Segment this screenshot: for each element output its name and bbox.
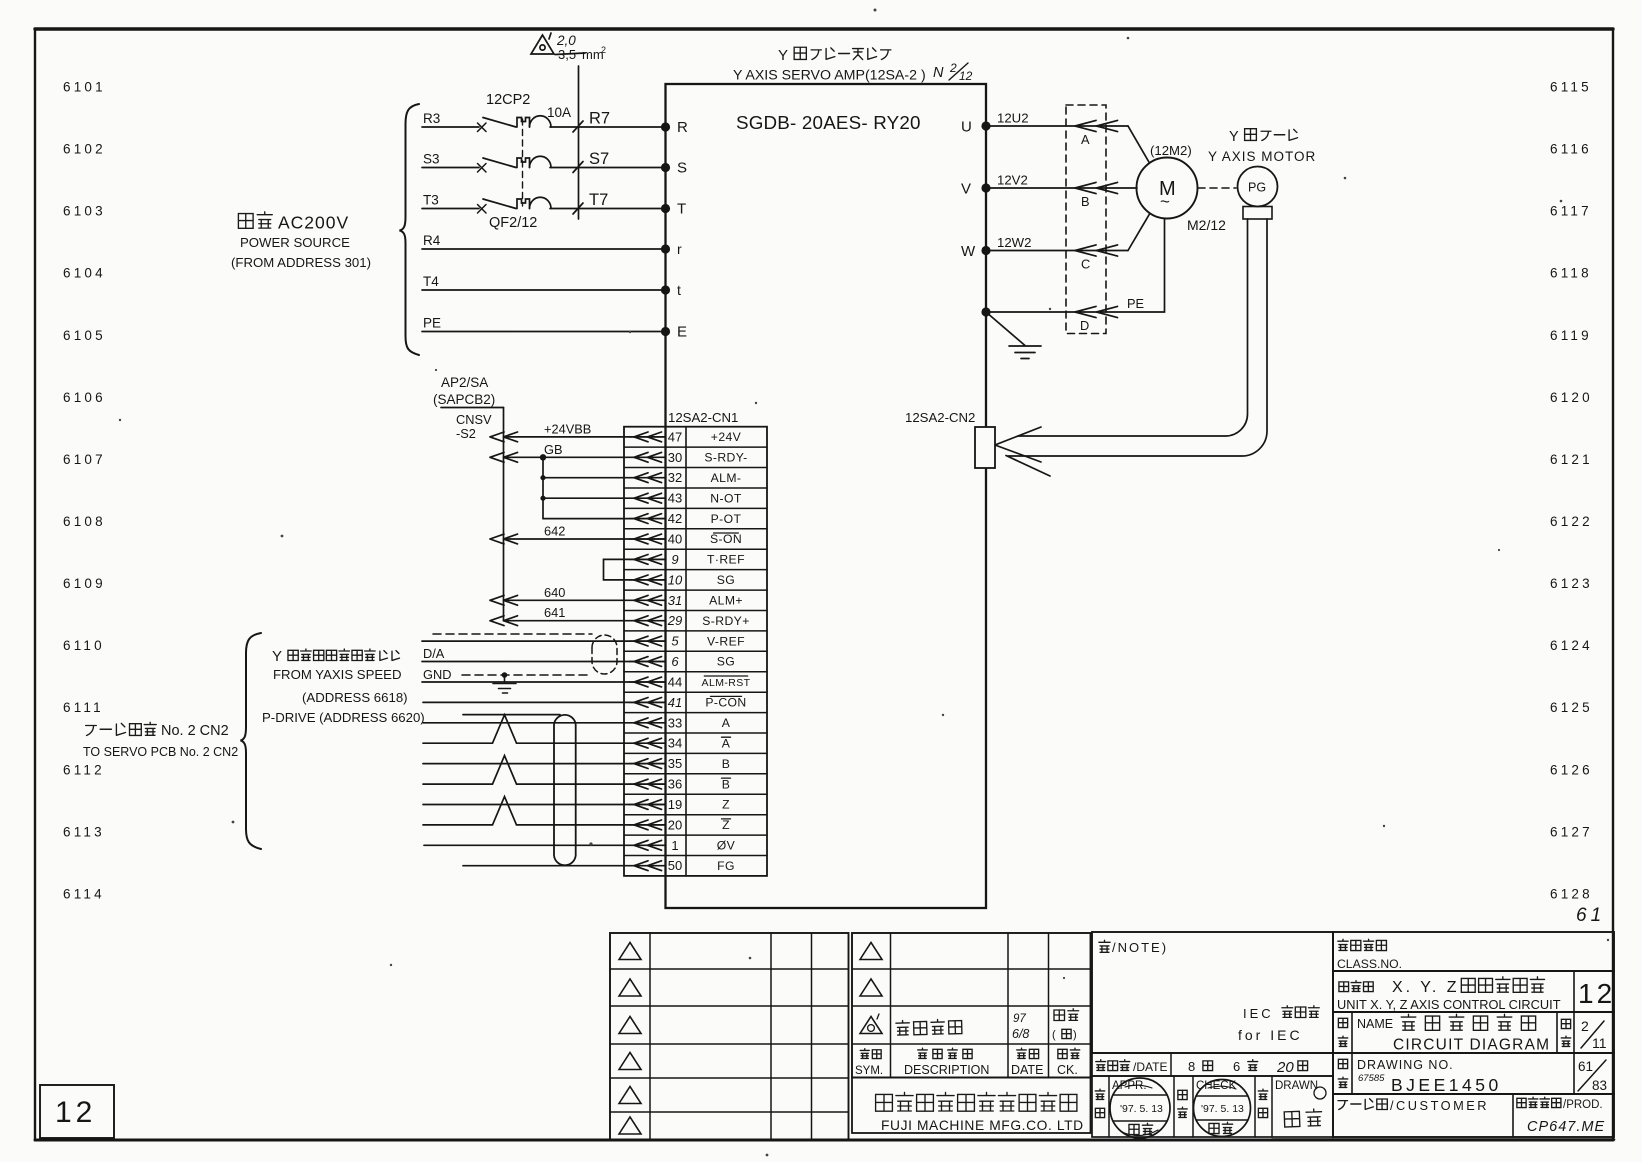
wire D/A to pin 6 [422,661,665,663]
breaker thermal element T3 [517,199,530,209]
node terminal t [661,285,670,294]
label approval (vertical Japanese) [1095,1089,1104,1117]
svg-text:DATE: DATE [1011,1063,1043,1077]
wire R4 [422,248,666,250]
svg-text:12: 12 [1578,978,1615,1009]
svg-text:44: 44 [668,675,682,690]
wire S3 input [422,167,479,169]
sheet number box 12 [40,1085,114,1138]
arrow terminal C [1075,245,1118,256]
svg-text:S-RDY+: S-RDY+ [702,614,749,628]
cable bundle oval [554,715,576,865]
svg-text:20: 20 [668,817,682,832]
svg-text:41: 41 [668,695,682,710]
svg-text:NAME: NAME [1357,1017,1393,1031]
svg-text:P-OT: P-OT [711,512,742,526]
wire arrow into pin 42 [634,514,662,524]
svg-text:8: 8 [1188,1059,1195,1074]
wire CNSV-S2 bus [503,408,505,621]
svg-text:12: 12 [55,1096,96,1129]
svg-text:6114: 6114 [63,886,105,901]
breaker contact x mark R3 [478,123,487,132]
svg-text:6120: 6120 [1550,390,1593,405]
svg-text:A: A [1081,132,1090,147]
svg-text:36: 36 [668,777,682,792]
tick on S7 wire [573,162,583,173]
wire-gauge note 2,0 / 3,5 mm2 [556,33,606,62]
wire encoder 33 [423,722,665,724]
revision triangle mark R2 [860,979,882,996]
connector CN1 pin table frame [624,427,767,876]
wire net 642 to pin 40 [504,538,666,540]
svg-text:43: 43 [668,491,682,506]
wire net 640 to pin 31 [504,599,666,601]
svg-text:19: 19 [668,797,682,812]
svg-text:6101: 6101 [63,80,106,95]
svg-text:No. 2 CN2: No. 2 CN2 [161,723,229,739]
svg-text:PE: PE [423,316,441,331]
wire encoder 36 with crossover tent [423,756,665,785]
svg-text:Y: Y [1229,129,1239,145]
wire arrow into pin 43 [634,493,662,503]
svg-text:R3: R3 [423,111,440,126]
wire R7 to amp [550,126,666,128]
svg-text:2,0: 2,0 [556,33,576,48]
wire T7 to amp [550,208,666,210]
svg-text:FG: FG [717,859,735,873]
svg-text:6108: 6108 [63,514,106,529]
wire arrow into pin 31 [634,595,662,605]
drawing no row [1333,1053,1614,1094]
svg-text:P-DRIVE (ADDRESS 6620): P-DRIVE (ADDRESS 6620) [262,710,425,725]
svg-text:V-REF: V-REF [707,634,745,648]
svg-text:~: ~ [1160,192,1170,211]
svg-text:6122: 6122 [1550,514,1593,529]
svg-text:6118: 6118 [1550,266,1592,281]
svg-text:TO SERVO PCB No. 2 CN2: TO SERVO PCB No. 2 CN2 [83,745,238,759]
svg-text:FROM YAXIS SPEED: FROM YAXIS SPEED [273,667,402,682]
svg-text:ØV: ØV [717,839,736,853]
svg-text:UNIT X. Y, Z AXIS CONTROL CIRC: UNIT X. Y, Z AXIS CONTROL CIRCUIT [1337,997,1561,1012]
svg-text:-S2: -S2 [456,426,476,441]
svg-text:B: B [722,757,731,771]
encoder PG [1238,167,1278,207]
page fraction 2/11 [1581,1018,1607,1051]
svg-text:640: 640 [544,585,565,600]
wire arrow into pin 36 [634,779,662,789]
svg-text:'97. 5. 13: '97. 5. 13 [1201,1103,1244,1115]
wire 0V to pin 1 [424,844,665,846]
svg-text:67585: 67585 [1358,1073,1385,1084]
label servo PCB No.2 CN2 (Japanese) [86,722,157,735]
wire arrow into pin 1 [634,840,662,850]
svg-text:for IEC: for IEC [1238,1027,1303,1043]
svg-text:9: 9 [671,552,678,567]
svg-text:(ADDRESS 6618): (ADDRESS 6618) [302,690,408,705]
svg-text:+24V: +24V [711,430,742,444]
svg-text:1: 1 [671,838,678,853]
svg-text:AC200V: AC200V [278,213,349,233]
svg-text:N: N [933,65,944,81]
arrow terminal B [1075,182,1118,193]
wire R3 input [422,126,479,128]
ground symbol at PE terminal [986,312,1041,359]
svg-text:ALM-: ALM- [711,471,742,485]
svg-text:33: 33 [668,715,682,730]
wire PE [422,331,666,333]
svg-text:40: 40 [668,532,682,547]
svg-text:12SA2-CN2: 12SA2-CN2 [905,410,975,425]
wire arrow into pin 20 [634,820,662,830]
svg-text:CP647.ME: CP647.ME [1527,1119,1605,1135]
name row: circuit diagram [1333,1012,1614,1053]
svg-text:6116: 6116 [1550,142,1592,157]
wire U diagonal to motor [1128,126,1150,163]
svg-text:E: E [677,324,687,341]
date row [1092,1053,1333,1076]
unit title row [1333,971,1614,1012]
svg-text:DRAWING NO.: DRAWING NO. [1357,1058,1454,1072]
svg-text:6104: 6104 [63,266,106,281]
svg-text:6: 6 [1233,1059,1240,1074]
svg-text:T·REF: T·REF [707,553,745,567]
revision date 97 6/8 [1012,1013,1029,1041]
svg-text:M2/12: M2/12 [1187,217,1226,233]
svg-text:31: 31 [668,593,682,608]
label check-label (vertical Japanese) [1178,1090,1187,1117]
svg-text:V: V [961,181,971,198]
revision triangle mark L4 [619,1053,641,1070]
svg-text:5: 5 [671,634,679,649]
svg-text:(: ( [1052,1029,1056,1041]
svg-text:B: B [722,777,731,791]
node terminal U [981,121,990,130]
svg-text:6103: 6103 [63,204,106,219]
svg-text:Z: Z [722,818,730,832]
wire T3 input [422,208,479,210]
svg-text:6123: 6123 [1550,576,1593,591]
svg-text:'97. 5. 13: '97. 5. 13 [1120,1103,1163,1115]
svg-text:12W2: 12W2 [997,235,1031,250]
svg-text:6119: 6119 [1550,328,1592,343]
svg-text:6106: 6106 [63,390,106,405]
svg-text:6121: 6121 [1550,452,1593,467]
svg-text:12SA2-CN1: 12SA2-CN1 [668,410,738,425]
node terminal r [661,244,670,253]
breaker contact x mark S3 [478,164,487,173]
svg-text:29: 29 [667,613,682,628]
svg-text:Y: Y [778,47,788,64]
wire net GB to pin 30 [504,456,666,458]
svg-text:11: 11 [1592,1035,1607,1051]
svg-text:(FROM ADDRESS 301): (FROM ADDRESS 301) [231,255,371,270]
svg-text:IEC: IEC [1243,1006,1274,1021]
wire encoder 19 [423,804,665,806]
svg-text:32: 32 [668,470,682,485]
breaker thermal element R3 [517,118,530,128]
svg-text:61: 61 [1576,905,1605,926]
sheet fraction 61/83 [1578,1059,1607,1093]
svg-text:t: t [677,282,681,298]
svg-text:D: D [1080,318,1089,333]
svg-text:GB: GB [544,442,563,457]
svg-text:QF2/12: QF2/12 [489,215,537,231]
svg-text:6112: 6112 [63,762,105,777]
wire 12U2 phase [986,125,1128,127]
svg-text:P-CON: P-CON [705,696,746,710]
arrow cable into CN2 [995,427,1041,462]
wire arrow into pin 30 [634,452,662,462]
junction dots GB branch [540,454,546,460]
op-amp/servo-amplifier U 12SA-2 box [666,84,987,908]
wire S7 to amp [550,167,666,169]
svg-text:12V2: 12V2 [997,173,1028,188]
customer row [1333,1094,1614,1137]
revision triangle mark L2 [619,979,641,996]
svg-text:Y: Y [272,648,282,665]
wire PE to motor [986,219,1165,313]
breaker blade S3 [483,158,516,168]
svg-text:6127: 6127 [1550,824,1593,839]
node terminal V [981,183,990,192]
svg-text:N-OT: N-OT [710,491,742,505]
gauge leader vertical line [578,66,580,219]
handwritten N 2/12 [933,61,973,83]
wire PG cable inner [1008,219,1267,456]
wire P-CON to pin 41 [423,701,665,703]
connector 12SA2-CN2 [975,427,995,468]
approval stamps row [1092,1076,1333,1137]
svg-text:DESCRIPTION: DESCRIPTION [904,1063,989,1077]
svg-text:r: r [677,241,682,257]
svg-text:97: 97 [1013,1013,1026,1025]
svg-text:6105: 6105 [63,328,106,343]
label Y-axis servo amp (Japanese) [778,47,891,64]
wire GB branch bus [542,457,544,518]
label IEC spec (Japanese) [1243,1006,1319,1021]
svg-text:642: 642 [544,524,565,539]
svg-text:DRAWN: DRAWN [1275,1080,1318,1092]
svg-text:CIRCUIT DIAGRAM: CIRCUIT DIAGRAM [1393,1037,1550,1054]
label Y axis speed output (Japanese) [272,648,399,665]
revision CK name (handwritten) [1054,1009,1079,1021]
svg-text:6107: 6107 [63,452,106,467]
wire FG to pin 50 [463,865,665,867]
tick on R7 wire [573,121,583,132]
svg-text:6102: 6102 [63,142,106,157]
revision triangle mark R1 [860,943,882,960]
node terminal R [661,122,670,131]
class no box [1333,932,1614,971]
wire 12V2 phase [986,187,1137,189]
wire ALM-RST to pin 44 [422,681,665,683]
svg-text:PG: PG [1248,181,1266,195]
header row SYM DESCRIPTION DATE CK [860,1049,881,1059]
wire arrow into pin 6 [634,657,662,667]
wire 12W2 phase [986,250,1128,252]
wire arrow into pin 9 [634,555,662,565]
svg-text:2: 2 [601,45,606,55]
svg-text:U: U [961,119,972,136]
wire arrow into pin 34 [634,738,662,748]
breaker contact x mark T3 [478,205,487,214]
svg-text:6/8: 6/8 [1012,1027,1029,1041]
svg-text:T4: T4 [423,274,439,289]
svg-text:35: 35 [668,756,682,771]
svg-text:R7: R7 [589,110,610,128]
svg-text:S-ON: S-ON [710,532,742,546]
svg-text:SG: SG [717,573,735,587]
svg-text:(SAPCB2): (SAPCB2) [433,392,495,407]
svg-text:6128: 6128 [1550,886,1593,901]
revision text wiring-change (handwritten Japanese) [896,1019,962,1035]
tick on T7 wire [573,203,583,214]
svg-text:Z: Z [722,798,730,812]
svg-text:6115: 6115 [1550,80,1592,95]
svg-text:Y AXIS SERVO AMP(12SA-2 ): Y AXIS SERVO AMP(12SA-2 ) [733,68,926,84]
svg-text:CK.: CK. [1057,1063,1078,1077]
svg-text:S7: S7 [589,150,609,168]
svg-text:6124: 6124 [1550,638,1593,653]
svg-text:A: A [722,736,731,750]
revision triangle mark L3 [619,1017,641,1034]
svg-text:2: 2 [1581,1018,1589,1034]
svg-text:B: B [1081,194,1090,209]
svg-text:6117: 6117 [1550,204,1592,219]
svg-text:6109: 6109 [63,576,106,591]
wire encoder 20 with crossover tent [423,797,665,825]
wire arrow into pin 41 [634,698,662,708]
node terminal S [661,163,670,172]
svg-text:PE: PE [1127,296,1144,311]
svg-text:50: 50 [668,858,682,873]
svg-text:12: 12 [959,69,973,83]
node terminal PE-out [981,307,990,316]
wire arrow into pin 35 [634,759,662,769]
wire arrow into pin 32 [634,473,662,483]
wire encoder 35 [423,763,665,765]
svg-text:42: 42 [668,511,682,526]
svg-text:S3: S3 [423,152,440,167]
wire T4 [422,289,666,291]
svg-text:ALM-RST: ALM-RST [702,677,751,689]
svg-text:AP2/SA: AP2/SA [441,375,488,390]
svg-text:R: R [677,119,688,136]
revision triangle mark R3 with circle [860,1017,882,1034]
node terminal W [981,246,990,255]
svg-text:/PROD.: /PROD. [1563,1099,1603,1111]
wire arrow into pin 29 [634,616,662,626]
svg-text:6125: 6125 [1550,700,1593,715]
wire shield dashed top [433,633,592,635]
wire W diagonal to motor [1128,214,1150,251]
svg-text:+24VBB: +24VBB [544,421,591,436]
wire net 641 to pin 29 [504,620,666,622]
motor terminal dashed box A-D [1066,105,1106,334]
wire arrow into pin 40 [634,534,662,544]
wire GND shield dashed [462,674,592,676]
svg-text:S: S [677,160,687,177]
svg-text:10: 10 [668,572,683,587]
svg-text:47: 47 [668,429,682,444]
svg-text:2: 2 [949,61,957,75]
svg-text:CNSV: CNSV [456,412,492,427]
wire arrow into pin 33 [634,718,662,728]
svg-text:ALM+: ALM+ [709,594,743,608]
svg-text:12CP2: 12CP2 [486,92,530,108]
svg-text:30: 30 [668,450,682,465]
svg-text:FUJI MACHINE MFG.CO. LTD: FUJI MACHINE MFG.CO. LTD [881,1118,1084,1133]
arrow terminal A [1075,120,1118,131]
svg-text:T: T [677,201,686,218]
svg-text:/NOTE): /NOTE) [1112,940,1168,955]
svg-text:6126: 6126 [1550,762,1593,777]
wire dashed motor-PG link [1198,187,1236,189]
wire arrow into pin 50 [634,861,662,871]
svg-text:W: W [961,243,976,260]
wire shorting link pins 9-10 [604,559,666,580]
svg-text:/CUSTOMER: /CUSTOMER [1390,1098,1489,1113]
svg-text:A: A [722,716,731,730]
breaker blade T3 [483,199,516,209]
svg-text:): ) [1073,1029,1077,1041]
wire net +24VBB to pin 47 [504,436,666,438]
revision triangle mark L5 [619,1087,641,1104]
revision table right [852,933,1091,1078]
breaker blade R3 [483,118,516,128]
svg-text:6110: 6110 [63,638,105,653]
wire arrow into pin 5 [634,636,662,646]
svg-text:6111: 6111 [63,700,104,715]
svg-text:34: 34 [668,736,682,751]
wire V-REF to pin 5 [422,640,665,642]
svg-text:BJEE1450: BJEE1450 [1391,1075,1502,1095]
company box [852,1078,1091,1134]
svg-text:X. Y. Z: X. Y. Z [1392,979,1460,996]
svg-text:T3: T3 [423,193,439,208]
brace power source group [400,104,420,355]
revision triangle mark L6 [619,1117,641,1134]
svg-text:SYM.: SYM. [855,1065,883,1077]
svg-text:CLASS.NO.: CLASS.NO. [1337,957,1402,971]
wire shield drain to cable bundle [463,714,560,716]
svg-text:6: 6 [671,654,679,669]
node terminal T [661,204,670,213]
svg-text:61: 61 [1578,1059,1593,1074]
svg-text:83: 83 [1592,1078,1607,1093]
wire arrow into pin 10 [634,575,662,585]
brace to servo PCB group [241,633,262,849]
svg-text:12U2: 12U2 [997,111,1029,126]
motor M 12M2 [1137,158,1198,219]
label drawn-label (vertical Japanese) [1258,1089,1267,1117]
wire arrow into pin 19 [634,800,662,810]
svg-text:GND: GND [423,667,451,682]
shield twist dashed oval [592,635,617,674]
label power source AC200V [238,212,272,228]
svg-text:T7: T7 [589,191,608,209]
label Y axis motor (Japanese) [1229,129,1298,145]
svg-text:D/A: D/A [423,646,445,661]
svg-text:(12M2): (12M2) [1150,143,1192,158]
breaker 12CP2 gang dashed link [522,119,524,206]
revision triangle mark L1 [619,943,641,960]
svg-text:Y AXIS MOTOR: Y AXIS MOTOR [1208,149,1316,164]
svg-text:R4: R4 [423,233,441,248]
svg-text:20: 20 [1276,1059,1294,1076]
svg-text:POWER SOURCE: POWER SOURCE [240,235,350,250]
company name Fuji Machine (Japanese) [876,1092,1077,1111]
